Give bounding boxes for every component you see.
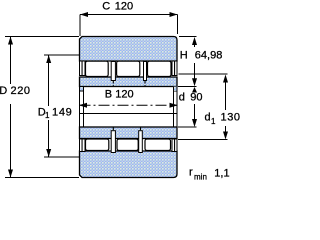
svg-text:B: B: [105, 88, 112, 100]
dim H line upper stub: [194, 44, 196, 47]
svg-text:130: 130: [221, 112, 241, 124]
dim d line lower: [194, 104, 196, 121]
dim D1 line lower: [48, 120, 50, 157]
dim C ext right: [177, 15, 179, 35]
svg-text:r: r: [189, 167, 193, 179]
dim d1 line upper: [225, 81, 227, 110]
dim d1 arrow down: [223, 132, 228, 140]
svg-text:90: 90: [190, 91, 202, 103]
svg-text:D: D: [0, 85, 7, 97]
dim H ext top: [179, 36, 197, 38]
svg-text:C: C: [102, 1, 110, 13]
dim D1 arrow down: [46, 149, 51, 157]
dim d1 arrow up: [223, 75, 228, 83]
dim C line: [80, 14, 178, 16]
svg-text:64,98: 64,98: [195, 49, 223, 61]
upper roller 2: [117, 61, 140, 76]
svg-text:1,1: 1,1: [214, 167, 229, 179]
dim B right arrow: [170, 103, 178, 108]
svg-text:d: d: [205, 112, 211, 124]
bore projection line right chamfer: [173, 87, 175, 127]
dim D line upper: [10, 37, 12, 85]
lower roller 3: [145, 139, 171, 151]
dim D1 line upper: [48, 55, 50, 106]
upper cage bar 1 center dash: [112, 81, 114, 87]
svg-text:1: 1: [211, 117, 216, 126]
bore projection line left edge: [79, 87, 81, 127]
bore bottom ext line: [178, 126, 197, 128]
inner ring right face chamfer area: [174, 87, 178, 92]
bore projection line left chamfer: [83, 87, 85, 127]
upper right flange cells: [172, 61, 175, 76]
inner ring lower section: [80, 127, 178, 139]
dim B centerline: [80, 104, 178, 106]
dim D1 ext top: [44, 54, 79, 56]
svg-text:120: 120: [115, 1, 133, 13]
dim D arrow up: [8, 37, 13, 45]
upper roller 1: [86, 61, 109, 76]
svg-text:149: 149: [52, 107, 72, 119]
dim d arrow up: [192, 87, 197, 93]
dim D ext bottom: [5, 177, 79, 179]
lower cage bar 2 center dash: [140, 127, 142, 131]
dim D line lower: [10, 104, 12, 178]
upper cage bar 2 center dash: [144, 81, 146, 87]
inner ring upper section: [80, 77, 178, 87]
dim d1 line lower: [225, 126, 227, 132]
lower cage bar 1: [111, 131, 115, 153]
dim D arrow down: [8, 170, 13, 178]
dim D1 ext bottom: [44, 156, 79, 158]
upper cage bar 1: [111, 62, 115, 81]
svg-text:H: H: [180, 49, 188, 61]
dim C right arrow: [170, 12, 178, 17]
dim d1 ext bottom: [178, 139, 228, 141]
lower roller 2: [117, 139, 138, 151]
dim C left arrow: [80, 12, 88, 17]
lower roller 1: [86, 139, 109, 151]
outer ring upper section: [80, 37, 178, 62]
bore projection line right edge: [176, 87, 178, 127]
svg-text:d: d: [179, 91, 185, 103]
lower cage bar 2: [139, 131, 143, 153]
dim d arrow down: [192, 119, 197, 127]
upper left flange cells: [80, 61, 83, 76]
svg-text:120: 120: [115, 88, 133, 100]
outer ring lower section: [80, 151, 178, 178]
dim d1 ext top: [179, 73, 228, 75]
dim D ext top: [5, 36, 79, 38]
dim B left arrow: [79, 103, 87, 108]
bore top ext line: [178, 86, 197, 88]
svg-text:1: 1: [45, 111, 50, 120]
dim H line lower: [194, 63, 196, 80]
dim C ext left: [79, 15, 81, 37]
lower cage bar 1 center dash: [112, 127, 114, 131]
dim D1 arrow up: [46, 55, 51, 63]
upper cage bar 2: [144, 62, 147, 81]
svg-text:220: 220: [11, 85, 31, 97]
lower right flange cells: [172, 139, 175, 152]
bore far-side silhouette line: [80, 113, 177, 115]
lower left flange cells: [80, 139, 83, 152]
inner ring left face chamfer area: [80, 87, 84, 92]
dim H arrow up: [192, 37, 197, 45]
svg-text:min: min: [194, 173, 207, 182]
dim H arrow down: [192, 78, 197, 86]
upper roller 3: [148, 61, 172, 76]
